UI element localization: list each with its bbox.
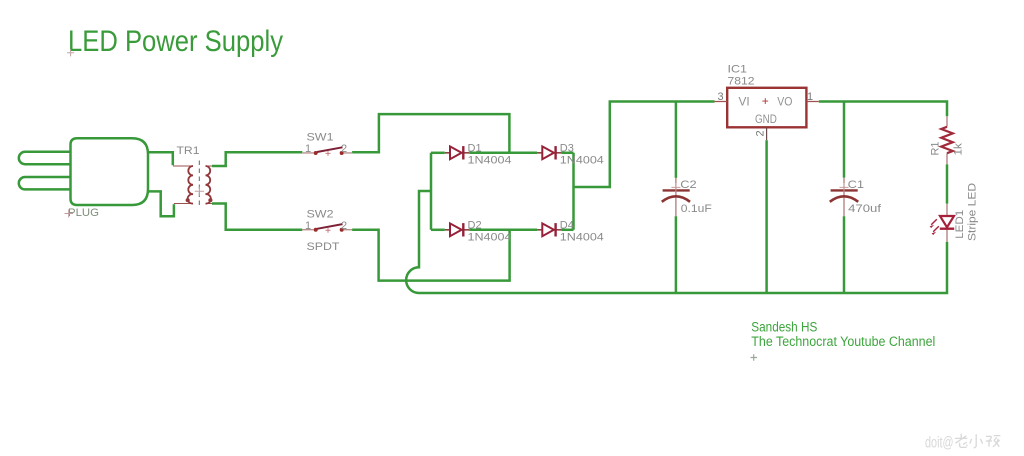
- switch SW1: [302, 132, 352, 156]
- wire bridge top rail middle segment: [469, 152, 537, 155]
- svg-text:VO: VO: [777, 96, 792, 108]
- wire bridge right vertical: [572, 153, 575, 230]
- svg-text:D2: D2: [468, 220, 482, 232]
- svg-text:1: 1: [305, 220, 311, 232]
- svg-text:7812: 7812: [728, 75, 755, 87]
- svg-text:TR1: TR1: [177, 145, 200, 157]
- plug body: [71, 138, 149, 205]
- transformer TR1: [173, 145, 212, 209]
- svg-text:LED1: LED1: [954, 210, 966, 239]
- diode D4: [537, 220, 604, 244]
- wire ground tap with hop arc to ground rail: [406, 191, 947, 293]
- diode D3: [537, 143, 604, 167]
- wire C1 top lead: [843, 102, 846, 178]
- svg-text:R1: R1: [929, 142, 941, 156]
- svg-text:1N4004: 1N4004: [560, 232, 604, 244]
- svg-text:1N4004: 1N4004: [468, 232, 512, 244]
- title origin cross: [67, 49, 74, 56]
- wire bridge bottom rail middle segment: [469, 229, 537, 232]
- LED LED1: [930, 183, 979, 242]
- wire C2 bottom lead: [675, 216, 678, 293]
- diode D1: [445, 143, 512, 167]
- wire C1 bottom lead: [843, 216, 846, 293]
- svg-text:IC1: IC1: [728, 64, 748, 76]
- svg-text:0.1uF: 0.1uF: [681, 203, 712, 215]
- IC1 7812 voltage regulator: [715, 64, 819, 141]
- svg-text:1: 1: [305, 143, 311, 155]
- svg-text:D1: D1: [468, 143, 482, 155]
- svg-text:3: 3: [718, 91, 724, 103]
- wire IC pin2 to ground rail: [765, 140, 768, 293]
- switch SW2: [302, 208, 352, 253]
- wire SW2 to bridge bottom node: [352, 230, 510, 281]
- annotation origin cross: [751, 354, 758, 361]
- svg-text:Stripe LED: Stripe LED: [966, 183, 978, 241]
- wire plug bottom stub to transformer: [147, 191, 174, 216]
- svg-text:1N4004: 1N4004: [468, 154, 512, 166]
- svg-text:doit@: doit@: [925, 434, 954, 451]
- svg-text:2: 2: [754, 130, 766, 136]
- resistor R1: [929, 116, 964, 164]
- wire bridge bottom rail left segment: [431, 229, 445, 232]
- plug prong 1: [19, 152, 71, 164]
- svg-text:1k: 1k: [952, 143, 964, 156]
- svg-text:C2: C2: [680, 179, 696, 191]
- svg-text:1N4004: 1N4004: [560, 154, 604, 166]
- wire bridge top rail right segment: [562, 152, 574, 155]
- svg-text:2: 2: [341, 220, 347, 232]
- svg-text:GND: GND: [755, 114, 777, 126]
- wire bridge top rail left segment: [431, 152, 445, 155]
- watermark CJK glyphs approximation: [955, 434, 1000, 448]
- wire transformer secondary top to SW1: [212, 152, 302, 166]
- svg-text:LED Power Supply: LED Power Supply: [68, 25, 283, 58]
- svg-text:SW2: SW2: [307, 208, 334, 220]
- svg-text:D3: D3: [560, 143, 574, 155]
- svg-text:2: 2: [341, 143, 347, 155]
- diode D2: [445, 220, 512, 244]
- wire bridge left vertical: [430, 153, 433, 230]
- svg-text:+: +: [762, 94, 769, 108]
- capacitor C1: [830, 178, 882, 217]
- svg-text:VI: VI: [739, 96, 750, 108]
- svg-text:SW1: SW1: [307, 132, 334, 144]
- svg-text:C1: C1: [848, 179, 864, 191]
- wire between R1 and LED1: [946, 164, 949, 203]
- svg-text:470uf: 470uf: [848, 203, 882, 215]
- wire transformer secondary bottom to SW2: [212, 204, 302, 230]
- capacitor C2: [662, 178, 712, 216]
- plug prong 2: [19, 177, 71, 189]
- wire top rail from IC pin1 to R1: [819, 102, 947, 117]
- wire bridge bottom rail right segment: [562, 229, 574, 232]
- wire plug top stub to transformer: [148, 152, 173, 165]
- wire C2 top lead: [675, 102, 678, 178]
- wire SW1 to bridge top node: [352, 114, 509, 153]
- svg-text:Sandesh HS: Sandesh HS: [751, 320, 817, 335]
- svg-text:D4: D4: [560, 220, 574, 232]
- svg-text:SPDT: SPDT: [307, 241, 340, 253]
- wire bridge DC+ tap to top rail: [574, 102, 715, 188]
- svg-text:1: 1: [807, 91, 813, 103]
- svg-text:The Technocrat Youtube Channel: The Technocrat Youtube Channel: [751, 334, 935, 349]
